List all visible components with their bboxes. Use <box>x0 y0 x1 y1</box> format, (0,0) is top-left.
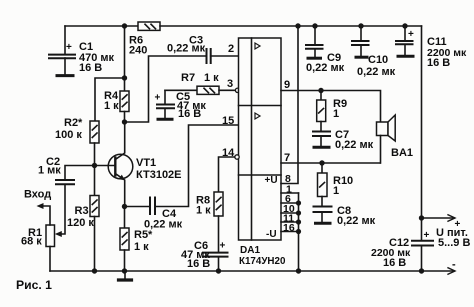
node pin11 junction <box>296 219 301 224</box>
amp2 triangle <box>255 113 260 119</box>
label +U <box>265 175 278 186</box>
svg-text:+: + <box>66 42 72 53</box>
svg-text:7: 7 <box>284 152 290 164</box>
resistor R10 <box>318 163 328 206</box>
label R9 1 <box>333 98 347 120</box>
wire collector to C3 <box>125 56 207 122</box>
wire pin1 stub <box>281 192 299 194</box>
pin 10 <box>283 203 295 215</box>
label BA1 <box>391 147 413 159</box>
ground bar of C11 <box>398 55 413 58</box>
label C4 0,22мк <box>144 208 183 231</box>
label C11 2200мк 16В <box>408 29 467 69</box>
wire R7 to pin3 <box>219 89 235 91</box>
ground bar of C1 <box>57 74 73 77</box>
resistor R2* <box>90 121 99 143</box>
svg-text:КТ3102Е: КТ3102Е <box>136 169 182 181</box>
label C2 1мк <box>38 156 61 177</box>
resistor R6 <box>138 22 160 30</box>
svg-text:5...9 В: 5...9 В <box>438 237 470 249</box>
label C1 470мк 16В <box>66 41 115 74</box>
svg-text:К174УН20: К174УН20 <box>239 256 286 267</box>
node R3 ground junction <box>92 268 97 273</box>
wire base <box>95 165 116 167</box>
capacitor C12 <box>412 241 433 271</box>
svg-text:+: + <box>155 93 161 104</box>
svg-text:16: 16 <box>283 222 295 234</box>
label R3 120к <box>67 205 94 229</box>
capacitor C3 <box>207 49 211 63</box>
label -U <box>266 229 277 240</box>
label C8 0,22мк <box>337 205 376 227</box>
resistor R4 <box>120 91 129 112</box>
wire R4 from rail <box>124 26 126 91</box>
wire supply to pin8 <box>281 26 298 184</box>
wire right supply drop <box>421 26 423 240</box>
svg-text:R2*: R2* <box>64 117 83 129</box>
svg-text:+: + <box>424 230 430 241</box>
capacitor C11 <box>396 26 413 55</box>
capacitor C10 <box>352 26 369 56</box>
svg-text:0,22 мк: 0,22 мк <box>357 66 396 78</box>
svg-text:16 В: 16 В <box>383 257 406 269</box>
svg-text:0,22 мк: 0,22 мк <box>335 139 374 151</box>
svg-text:240: 240 <box>129 45 147 57</box>
label Вход <box>24 188 51 200</box>
node C6 ground junction <box>216 268 221 273</box>
node C10 tap <box>358 23 363 28</box>
svg-text:16 В: 16 В <box>178 108 201 120</box>
wire pin11 stub <box>281 221 299 223</box>
ground symbol on rail <box>119 271 132 280</box>
resistor R5* <box>120 207 129 272</box>
node C9 tap <box>312 23 317 28</box>
svg-text:Вход: Вход <box>24 188 51 200</box>
wire pin16 stub <box>281 231 299 233</box>
node pin10 junction <box>296 210 301 215</box>
resistor R7 <box>197 86 219 94</box>
op-amp IC DA1 body <box>239 38 282 240</box>
ground bar of C9 <box>308 57 321 60</box>
wire R2 bottom to base node <box>94 143 96 166</box>
capacitor C6 <box>203 216 228 271</box>
svg-text:VT1: VT1 <box>136 157 156 169</box>
svg-text:16 В: 16 В <box>187 258 210 270</box>
wire C4 to pin15 <box>155 125 239 207</box>
ground bar of C7 <box>314 146 329 149</box>
svg-text:R5*: R5* <box>134 229 153 241</box>
pin 9 <box>284 79 290 91</box>
svg-text:DA1: DA1 <box>240 245 260 256</box>
svg-text:+U: +U <box>265 175 278 186</box>
label C7 0,22мк <box>335 129 374 151</box>
pin 3 <box>227 78 233 90</box>
node supply tap on rail <box>295 23 300 28</box>
node pin16 junction <box>296 229 301 234</box>
capacitor C7 <box>313 132 330 147</box>
speaker BA1 <box>377 115 396 163</box>
svg-text:+: + <box>455 219 461 230</box>
svg-text:1 к: 1 к <box>104 100 119 112</box>
node base junction <box>92 163 97 168</box>
wire C5 to R7 <box>165 89 197 91</box>
arrow positive terminal <box>448 215 455 221</box>
svg-text:100 к: 100 к <box>55 129 82 141</box>
svg-text:+: + <box>220 241 226 252</box>
ground bar of C8 <box>316 222 331 225</box>
pin 1 <box>286 184 292 196</box>
wire R2 top <box>95 78 125 121</box>
capacitor C9 <box>306 26 323 57</box>
capacitor C5 <box>157 90 174 118</box>
label R4 1к <box>104 90 119 112</box>
node R9 junction <box>318 88 323 93</box>
input arrow <box>37 203 44 209</box>
pin 6 <box>285 193 291 205</box>
label C6 47мк 16В <box>181 240 226 270</box>
label R6 240 <box>129 35 147 57</box>
label Рис. 1 <box>16 278 52 292</box>
node C11 tap <box>402 23 407 28</box>
svg-text:R7: R7 <box>181 72 195 84</box>
label C3 0,22мк <box>167 35 206 55</box>
node bus ground junction <box>296 268 301 273</box>
node collector junction <box>122 119 127 124</box>
wiper arrow into R1 <box>55 231 62 237</box>
label R1 68к <box>21 227 42 248</box>
wire ground bus <box>298 193 300 271</box>
resistor R8 <box>214 192 223 216</box>
svg-text:68 к: 68 к <box>21 236 42 248</box>
svg-text:1: 1 <box>333 185 339 197</box>
transistor VT1 <box>108 122 133 207</box>
svg-text:9: 9 <box>284 79 290 91</box>
capacitor C2 <box>56 166 95 235</box>
capacitor C1 <box>49 26 75 74</box>
resistor R9 <box>317 91 326 131</box>
wire top rail right segment <box>160 25 422 27</box>
svg-text:0,22 мк: 0,22 мк <box>167 43 206 55</box>
label C12 2200мк 16В <box>371 230 430 269</box>
pin 14 inversion circle <box>235 155 239 159</box>
wire R4 to collector node <box>124 112 126 123</box>
resistor R3 <box>90 166 99 272</box>
svg-text:Рис. 1: Рис. 1 <box>16 278 52 292</box>
label VT1 КТ3102Е <box>136 157 182 181</box>
wire positive output <box>422 217 455 219</box>
svg-text:0,22 мк: 0,22 мк <box>337 215 376 227</box>
pin 2 <box>228 43 234 55</box>
pin 8 <box>285 173 291 185</box>
label U пит 5...9В <box>436 219 470 271</box>
pin 16 <box>283 222 295 234</box>
ground bar of C10 <box>356 56 367 59</box>
pin 15 <box>222 115 234 127</box>
label C9 0,22мк <box>306 52 345 74</box>
arrow negative terminal <box>448 268 455 274</box>
label C5 47мк 16В <box>155 91 207 120</box>
svg-text:14: 14 <box>222 147 235 159</box>
capacitor C8 <box>314 207 332 223</box>
svg-text:-U: -U <box>266 229 277 240</box>
wire pin10 stub <box>281 212 299 214</box>
svg-text:1: 1 <box>333 108 339 120</box>
svg-text:R3: R3 <box>75 205 89 217</box>
svg-text:1 к: 1 к <box>204 72 219 84</box>
ground bar of C5 <box>158 118 172 121</box>
svg-text:16 В: 16 В <box>79 62 102 74</box>
svg-text:1 к: 1 к <box>134 241 149 253</box>
wire bottom rail <box>50 270 454 272</box>
label R10 1 <box>333 175 353 197</box>
wire top rail left segment <box>65 25 138 27</box>
node R10 junction <box>319 160 324 165</box>
svg-text:2: 2 <box>228 43 234 55</box>
node R5 ground junction <box>122 268 127 273</box>
label DA1 К174УН20 <box>239 245 286 267</box>
label R8 1к <box>196 195 211 217</box>
pin 14 <box>222 147 235 159</box>
label R2* 100к <box>55 117 83 141</box>
label R7 1к <box>181 72 219 84</box>
node C12 top junction <box>419 215 424 220</box>
label C10 0,22мк <box>357 54 396 78</box>
svg-text:BA1: BA1 <box>391 147 413 159</box>
svg-text:3: 3 <box>227 78 233 90</box>
node R2 tap junction <box>122 75 127 80</box>
wire pin14 to R8 <box>219 157 235 193</box>
svg-text:+: + <box>408 29 414 40</box>
svg-text:0,22 мк: 0,22 мк <box>306 62 345 74</box>
node C12 ground junction <box>419 268 424 273</box>
svg-text:1 мк: 1 мк <box>38 165 61 177</box>
amp1 triangle <box>255 43 260 49</box>
svg-text:120 к: 120 к <box>67 217 94 229</box>
node rail/R4 junction <box>122 23 127 28</box>
capacitor C4 <box>125 198 156 215</box>
wire C3 to pin2 <box>211 55 239 57</box>
wire pin7 output <box>281 162 380 164</box>
pin 3 inversion circle <box>235 88 239 92</box>
node emitter junction <box>122 204 127 209</box>
svg-text:15: 15 <box>222 115 234 127</box>
label R5* 1к <box>134 229 153 253</box>
pin 11 <box>283 213 294 225</box>
wire pin9 output <box>281 91 381 123</box>
svg-text:1 к: 1 к <box>196 205 211 217</box>
svg-text:C10: C10 <box>368 54 388 66</box>
svg-text:-: - <box>452 259 456 271</box>
svg-text:16 В: 16 В <box>427 57 450 69</box>
pin 7 <box>284 152 290 164</box>
wire pin6 stub <box>281 202 299 204</box>
node pin6 junction <box>296 200 301 205</box>
potentiometer R1 <box>40 206 55 271</box>
